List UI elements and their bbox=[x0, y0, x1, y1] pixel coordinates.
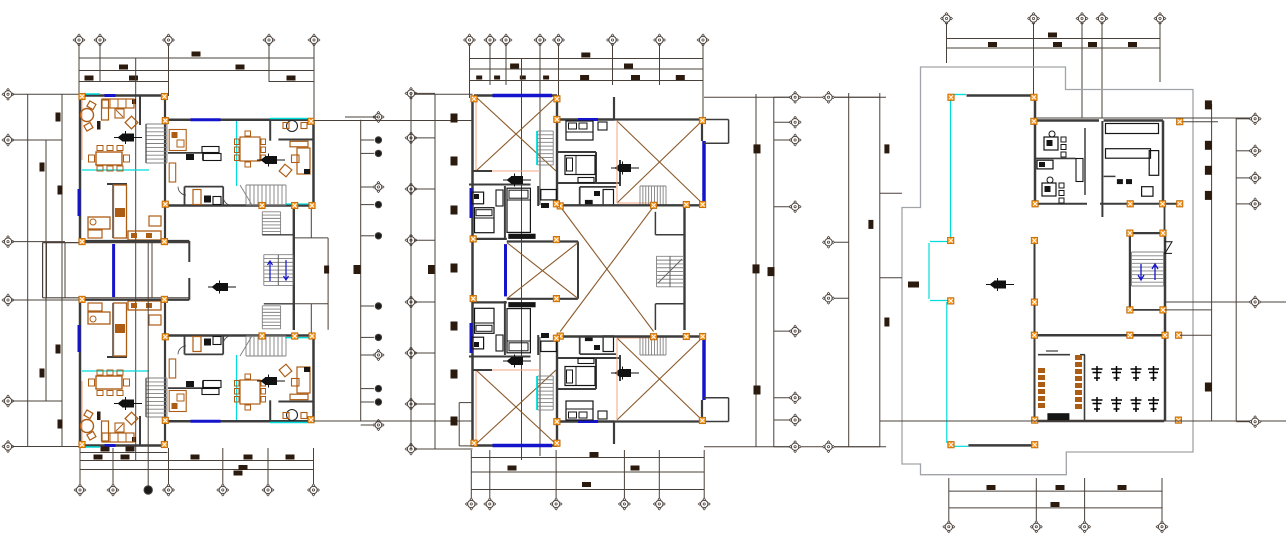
plan2 bed top-middle bedroom bbox=[566, 401, 593, 420]
plan2 salmon outline top-left bay bbox=[475, 370, 477, 444]
plan3 office computer desks bbox=[1044, 137, 1058, 150]
plan1 bottom dimension ticks bbox=[101, 447, 110, 452]
plan1 left dimension bubbles bbox=[2, 88, 14, 100]
plan1 stairs top-right apartment bbox=[246, 185, 286, 205]
plan2 top dimension ticks bbox=[581, 53, 590, 58]
plan2 right balcony notch bbox=[704, 421, 729, 423]
plan2 bedroom block left walls bbox=[469, 184, 531, 186]
plan1 blue accent left wall bbox=[78, 325, 81, 352]
plan2 stairs center-top bbox=[538, 376, 554, 410]
plan3 bottom ticks bbox=[987, 485, 996, 490]
plan2 long horizontal lines right bbox=[704, 96, 886, 98]
plan1 left dimension lines bbox=[13, 93, 81, 95]
plan2 wall top-middle bedroom bbox=[556, 96, 558, 206]
plan1 kitchen appliances top-right bbox=[169, 391, 186, 412]
plan3 long lines right of office bbox=[1035, 117, 1251, 119]
plan1 furniture round table top-left bbox=[81, 109, 94, 122]
plan1 furniture sofa L top-right bbox=[297, 148, 310, 174]
plan2 Xbrace top-right bay bbox=[617, 121, 702, 203]
plan3 long lines right bbox=[1165, 301, 1286, 303]
plan3 office wall under desks bbox=[1035, 157, 1076, 159]
plan3 terrace black tick left bbox=[908, 282, 919, 288]
plan1 wall top-right apartment outline bbox=[165, 118, 314, 121]
plan2 right ticks bbox=[754, 144, 761, 153]
plan3 top ticks bbox=[1048, 33, 1057, 38]
plan1 furniture dining table top-left bbox=[96, 376, 122, 389]
plan2 wall stub mid-left bbox=[473, 369, 493, 371]
plan3 cyan boundary bbox=[953, 94, 966, 96]
plan2 Xbrace top-right bay bbox=[617, 338, 702, 420]
plan1 kitchen appliances top-right bbox=[169, 130, 186, 151]
plan1 cyan vertical line top-right bbox=[236, 355, 238, 420]
plan1 furniture kitchen cluster top-left bbox=[88, 217, 110, 229]
plan2 left ticks bbox=[451, 114, 458, 123]
plan2 top dimension lines bbox=[470, 58, 704, 60]
plan3 stair top-right stairs bbox=[1132, 252, 1164, 286]
plan3 right ticks bbox=[1205, 100, 1212, 109]
plan2 blue wall right bay bbox=[702, 141, 706, 203]
plan2 center lobby X box walls bbox=[507, 240, 578, 242]
plan3 wall top bbox=[967, 94, 1034, 97]
plan2 wall stub mid-left bbox=[473, 170, 493, 172]
plan2 blue accent top wall bbox=[493, 444, 553, 448]
plan2 bath row middle bbox=[579, 336, 581, 354]
plan2 beds left block bbox=[475, 208, 495, 233]
plan1 stair core landing wall bbox=[264, 303, 294, 305]
plan1 wall beside stairs top-left bbox=[139, 96, 141, 126]
plan1 stair core lower hatch bbox=[262, 306, 280, 329]
plan3 machine room shelves brown bbox=[1038, 368, 1045, 373]
plan1 furniture kitchen cluster top-left bbox=[88, 312, 110, 324]
plan1 wall top-left apartment outline bbox=[80, 444, 165, 447]
plan3 left ticks bbox=[884, 144, 889, 153]
plan1 furniture round table top-right bbox=[287, 410, 298, 421]
plan3 north arrow bbox=[986, 278, 1014, 291]
plan2 bottom dimension lines bbox=[471, 457, 704, 459]
plan3 stair top-right walls bbox=[1129, 233, 1131, 310]
plan1 interior walls top-right bbox=[269, 120, 271, 141]
plan1 cyan line living top-left bbox=[82, 370, 149, 372]
plan2 north arrow middle bbox=[611, 162, 639, 175]
plan1 long line to plan2 top bbox=[314, 120, 473, 122]
plan2 north arrow middle bbox=[611, 367, 639, 380]
plan2 bed middle bedroom bbox=[565, 156, 595, 175]
plan2 grid line D segments bbox=[539, 85, 541, 205]
plan1 sofa corner dark bit bbox=[132, 437, 136, 442]
plan1 salmon inner face left bbox=[81, 381, 83, 444]
plan2 Xbrace top-left bay bbox=[476, 97, 556, 171]
plan2 wall top-right bay bbox=[614, 420, 702, 422]
plan1 entry blue door bbox=[112, 244, 115, 297]
plan1 stairs top-right apartment bbox=[246, 336, 286, 356]
plan3 machine room black equipment bbox=[1047, 413, 1069, 420]
plan3 door top-right bbox=[1165, 242, 1172, 254]
plan1 furniture desk mid top-left bbox=[149, 216, 161, 226]
plan1 interior wall kitchen top-left bbox=[107, 183, 127, 185]
plan2 bottom stems and bubbles bbox=[470, 450, 472, 500]
plan2 stair core stairs bbox=[657, 256, 684, 287]
plan2 right dimension lines bbox=[755, 94, 757, 447]
plan3 top dimension lines bbox=[947, 38, 1161, 40]
plan2 north arrow left bbox=[503, 174, 531, 187]
plan1 interior walls top-right bbox=[269, 400, 271, 421]
plan1 right open bubble column bbox=[345, 116, 378, 118]
plan1 furniture round table top-left bbox=[81, 420, 94, 433]
plan2 lobby blue edge bbox=[504, 244, 507, 296]
plan2 right bubble column bbox=[789, 91, 801, 103]
plan1 blue accent top-right wall bbox=[191, 118, 221, 121]
plan2 salmon outline top-right bay bbox=[616, 121, 618, 203]
plan1 sofa corner dark bit bbox=[132, 99, 136, 104]
plan1 kitchen counters top-right bbox=[202, 147, 219, 153]
plan1 top grid bubbles bbox=[73, 34, 85, 46]
plan2 wall top-left bay bbox=[474, 94, 557, 97]
plan1 furniture kitchen strip top-left bbox=[114, 185, 127, 238]
plan2 top grid bubbles bbox=[464, 34, 476, 46]
plan2 blue accent left wall bbox=[470, 323, 473, 353]
plan2 bed top-middle bedroom bbox=[566, 121, 593, 140]
plan1 furniture dining top-right bbox=[240, 380, 260, 404]
plan2 salmon outline top-right bay bbox=[616, 338, 618, 420]
plan1 blue accent top-left wall bbox=[105, 94, 116, 97]
plan1 duct tick bbox=[324, 266, 329, 274]
plan2 bedroom block left walls bbox=[469, 356, 531, 358]
plan3 top grid bubbles bbox=[941, 13, 953, 25]
plan1 furniture sofa L top-right bbox=[297, 367, 310, 393]
plan2 blue accent top wall bbox=[493, 94, 553, 98]
plan2 stairs mid-right bbox=[640, 336, 666, 355]
plan1 bath fixtures top-right bbox=[204, 339, 211, 346]
plan1 interior wall kitchen top-left bbox=[107, 356, 127, 358]
plan2 stairs center-top bbox=[538, 131, 554, 165]
plan1 top dimension ticks bbox=[192, 52, 201, 57]
plan1 furniture dining top-right bbox=[240, 137, 260, 161]
plan1 long grid line vertical bbox=[135, 58, 137, 460]
plan1 filled bubble grid line bbox=[147, 241, 149, 448]
plan1 bottom grid bubbles bbox=[74, 484, 86, 496]
plan2 blue accent bedroom top bbox=[578, 420, 598, 423]
plan1 door arcs top-right bbox=[178, 187, 186, 196]
plan1 cyan vertical line top-right bbox=[236, 121, 238, 186]
plan1 furniture bottom cabinets top-left bbox=[128, 301, 161, 310]
plan1 door jamb top-left bbox=[97, 412, 101, 421]
plan1 right dimension line bbox=[360, 120, 362, 421]
plan3 top stems bbox=[946, 23, 948, 63]
plan3 wall bottom bbox=[968, 444, 1034, 447]
plan2 bath row middle bbox=[579, 187, 581, 205]
plan2 bottom-left notch bbox=[459, 402, 472, 404]
plan1 north arrow top-left bbox=[114, 397, 142, 410]
plan2 bath right of bedrooms bbox=[541, 190, 557, 200]
plan2 beds left block bbox=[475, 308, 495, 333]
plan3 right bubbles bbox=[1249, 113, 1261, 125]
plan2 lobby X brace bbox=[507, 243, 578, 299]
plan2 stair core wall bbox=[683, 206, 685, 330]
plan3 column markers bbox=[948, 94, 954, 100]
plan1 north arrow lobby bbox=[208, 281, 236, 294]
plan1 stairs top-left bbox=[146, 124, 167, 163]
plan1 stair core main stairs bbox=[264, 255, 293, 286]
plan1 furniture bottom cabinets top-left bbox=[128, 231, 161, 240]
plan1 wall beside stairs top-left bbox=[139, 416, 141, 446]
plan1 bath fixtures top-right bbox=[204, 196, 211, 203]
plan3 center wall column line bbox=[1034, 241, 1036, 422]
plan2 mirrored bottom half bbox=[469, 301, 729, 446]
plan2 left dimension line bbox=[434, 94, 436, 449]
plan2 wall top-right bay bbox=[614, 118, 702, 120]
plan2 bath right of bedrooms bbox=[541, 341, 557, 351]
plan2 wall top-middle bedroom bbox=[556, 336, 558, 446]
plan1 furniture kitchen strip top-left bbox=[114, 303, 127, 356]
plan1 blue accent top-left wall bbox=[105, 444, 116, 447]
plan1 right ticks bbox=[354, 265, 361, 274]
plan1 mirrored bottom apartments bbox=[79, 300, 314, 447]
plan2 stair core lower walls bbox=[655, 303, 684, 305]
plan1 wall top-left apartment outline bbox=[80, 94, 165, 97]
plan2 long grid vertical bbox=[521, 58, 523, 460]
plan2 stair core upper walls bbox=[654, 212, 656, 235]
plan2 left wall upper bbox=[471, 301, 474, 443]
plan1 bottom dimension lines bbox=[80, 452, 168, 454]
plan2 blue wall right bay bbox=[702, 338, 706, 400]
plan1 duct box right of core bbox=[294, 237, 328, 239]
plan1 door jamb top-left bbox=[97, 121, 101, 130]
plan2 mid walls bbox=[560, 204, 704, 206]
plan3 office printer table bbox=[1037, 160, 1053, 169]
plan1 cyan accent top-left bbox=[82, 93, 100, 95]
plan2 wall top-left bay bbox=[474, 444, 557, 447]
plan1 bathroom walls top-right bbox=[184, 336, 186, 355]
plan2 Xbrace top-left bay bbox=[476, 370, 556, 444]
plan2 bedroom divider walls bbox=[557, 388, 596, 390]
plan3 transformer symbols bbox=[1092, 366, 1103, 381]
plan2 right balcony notch bbox=[704, 119, 729, 121]
plan1 north arrow top-right bbox=[257, 375, 285, 388]
plan1 top grid stems bbox=[78, 45, 80, 96]
plan3 office cabinet bbox=[1076, 159, 1083, 182]
plan1 north arrow top-left bbox=[114, 131, 142, 144]
plan1 cyan line living top-left bbox=[82, 169, 149, 171]
plan2 north arrow left bbox=[503, 355, 531, 368]
plan1 salmon inner face left bbox=[81, 97, 83, 160]
plan1 wall top-right apartment outline bbox=[165, 420, 314, 423]
plan2 central big X brace bbox=[560, 207, 653, 332]
plan1 furniture desk mid top-left bbox=[149, 315, 161, 325]
plan3 terrace gray outline bbox=[902, 67, 1193, 475]
plan1 blue accent left wall bbox=[78, 189, 81, 216]
plan3 left bubbles bbox=[823, 91, 835, 103]
plan1 top dimension lines bbox=[79, 57, 314, 59]
plan3 office right room tables bbox=[1106, 124, 1159, 134]
plan1 stairs top-left bbox=[146, 378, 167, 417]
plan2 stairs mid-right bbox=[640, 186, 666, 205]
plan1 north arrow top-right bbox=[257, 154, 285, 167]
plan1 entry lobby walls bbox=[43, 242, 190, 244]
plan1 long line to plan2 bottom bbox=[314, 420, 473, 422]
plan1 open bubble top stub to plan2 bbox=[415, 93, 473, 95]
plan1 cyan accents inner walls bbox=[285, 203, 309, 205]
plan1 cyan accent top-left bbox=[82, 446, 100, 448]
plan1 blue accent top-right wall bbox=[191, 420, 221, 423]
plan2 blue accent left wall bbox=[470, 188, 473, 218]
plan1 cyan accent top-right wall bbox=[270, 422, 307, 424]
plan1 column markers bbox=[79, 93, 85, 99]
plan3 bottom dimension lines bbox=[949, 490, 1163, 492]
plan1 furniture sofa L top-left bbox=[102, 99, 134, 108]
plan2 walls to lobby bbox=[473, 238, 507, 240]
plan1 door arcs top-right bbox=[178, 346, 186, 355]
plan2 bedroom divider walls bbox=[557, 151, 596, 153]
plan1 cyan accent top-right wall bbox=[270, 118, 307, 120]
plan1 kitchen counters top-right bbox=[202, 389, 219, 395]
plan2 salmon outline top-left bay bbox=[475, 97, 477, 171]
plan1 stair core upper hatch bbox=[262, 212, 280, 235]
plan1 left dimension ticks bbox=[40, 163, 45, 172]
plan3 machine room small shelf line bbox=[1046, 350, 1058, 352]
plan2 bed middle bedroom bbox=[565, 367, 595, 386]
plan2 top grid stems bbox=[469, 45, 471, 99]
plan3 bottom stems and bubbles bbox=[948, 478, 950, 523]
plan2 left wall upper bbox=[471, 98, 474, 240]
plan1 bathroom walls top-right bbox=[184, 187, 186, 206]
plan1 furniture sofa L top-left bbox=[102, 433, 134, 442]
plan3 left lines bbox=[848, 93, 850, 447]
plan1 entry porch lines bbox=[46, 243, 48, 298]
plan2 blue accent bedroom top bbox=[578, 118, 598, 121]
plan1 right small bubbles column bbox=[361, 116, 374, 118]
plan3 office walls bbox=[1034, 97, 1037, 206]
plan1 stair core wall bbox=[293, 206, 295, 331]
plan1 furniture dining table top-left bbox=[96, 152, 122, 165]
plan1 furniture round table top-right bbox=[287, 121, 298, 132]
plan3 machine room walls bbox=[1035, 334, 1166, 337]
plan2 bottom ticks bbox=[590, 452, 599, 457]
plan2 column markers bbox=[471, 96, 477, 102]
plan1 bottom stems bbox=[79, 448, 81, 486]
